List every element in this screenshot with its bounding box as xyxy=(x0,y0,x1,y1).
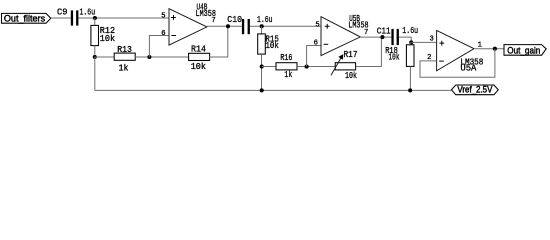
wire C11 to jog xyxy=(399,37,411,42)
wire U5B output to C11 xyxy=(360,36,392,38)
svg-text:5: 5 xyxy=(161,12,165,20)
junction output U5A xyxy=(493,47,497,51)
junction output U4B xyxy=(226,24,230,28)
svg-text:1.6u: 1.6u xyxy=(402,26,418,36)
svg-text:C9: C9 xyxy=(57,7,68,17)
junction node E (inverting input U5B) xyxy=(305,65,309,69)
wire Out_filters to C9 xyxy=(51,17,71,19)
resistor R16 xyxy=(276,63,297,70)
svg-text:10k: 10k xyxy=(345,71,357,81)
svg-text:1k: 1k xyxy=(119,64,129,74)
wire junction down to R15 xyxy=(261,26,263,34)
svg-text:Out_gain: Out_gain xyxy=(507,44,540,55)
wire U5A output to Out_gain xyxy=(474,48,504,50)
svg-text:3: 3 xyxy=(430,36,434,44)
net label Out_filters xyxy=(2,13,51,23)
junction node at C10/R15 xyxy=(260,24,264,28)
wire U4B output to C10 xyxy=(207,25,242,27)
capacitor C10 xyxy=(242,19,250,34)
svg-text:6: 6 xyxy=(161,30,165,38)
svg-text:R16: R16 xyxy=(280,53,292,63)
resistor R14 xyxy=(189,53,210,60)
junction output U5B xyxy=(380,35,384,39)
wire C9 to U4B pin5 xyxy=(78,17,169,19)
resistor R15 xyxy=(258,34,266,54)
trimmer R17 xyxy=(331,55,356,75)
wire R14 to U4B output xyxy=(209,26,228,57)
wire R15 down to Vref rail xyxy=(261,54,263,90)
svg-text:10k: 10k xyxy=(100,34,115,44)
net label Vref_2.5V xyxy=(451,85,498,95)
svg-text:6: 6 xyxy=(314,39,318,47)
svg-text:R17: R17 xyxy=(344,50,358,60)
wire C10 to U5B pin5 xyxy=(250,25,321,27)
wire node B to R13 xyxy=(95,56,114,58)
wire node C up to U4B pin6 xyxy=(149,36,169,58)
capacitor C9 xyxy=(71,10,79,25)
svg-text:5: 5 xyxy=(315,21,319,29)
wire R16 to R17 xyxy=(297,66,335,68)
wire node E up to U5B pin6 xyxy=(307,46,321,67)
wire feedback U5A output to pin2 xyxy=(420,49,495,77)
svg-text:1.6u: 1.6u xyxy=(257,15,273,25)
junction node at C9/R12 xyxy=(93,16,97,20)
op-amp U5A xyxy=(437,30,474,70)
wire node F down to R18 xyxy=(409,42,411,44)
junction node C (inverting input U4B) xyxy=(147,55,151,59)
wire R12 to node B xyxy=(94,46,96,57)
wire R17 to U5B output xyxy=(356,37,382,66)
wire node B down to Vref rail xyxy=(94,57,96,90)
svg-text:C10: C10 xyxy=(227,15,242,25)
junction rail/R15 xyxy=(260,88,264,92)
junction rail/R18 xyxy=(408,88,412,92)
capacitor C11 xyxy=(391,29,399,45)
svg-text:1k: 1k xyxy=(284,70,292,80)
wire node D to R16 xyxy=(262,66,277,68)
resistor R13 xyxy=(114,53,135,60)
svg-text:R13: R13 xyxy=(117,45,132,55)
op-amp U5B xyxy=(321,17,360,56)
junction node F (C11/R18/U5A pin3) xyxy=(409,40,413,44)
svg-text:Out_filters: Out_filters xyxy=(4,13,46,23)
svg-text:1.6u: 1.6u xyxy=(80,7,96,17)
svg-text:10k: 10k xyxy=(191,62,206,72)
svg-text:LM358: LM358 xyxy=(348,21,368,31)
svg-text:C11: C11 xyxy=(377,26,391,36)
resistor R12 xyxy=(91,25,99,45)
svg-text:Vref_2.5V: Vref_2.5V xyxy=(457,85,492,95)
resistor R18 xyxy=(406,45,414,67)
wire junction down to R12 xyxy=(94,18,96,25)
wire node F to U5A pin3 xyxy=(411,41,436,43)
wire Vref rail xyxy=(95,89,452,91)
svg-text:R14: R14 xyxy=(191,45,206,55)
svg-text:U5A: U5A xyxy=(460,64,477,74)
op-amp U4B xyxy=(169,9,207,45)
junction node D (R15/R16) xyxy=(260,64,264,68)
svg-text:10k: 10k xyxy=(265,41,279,51)
wire R18 down to Vref rail xyxy=(409,66,411,90)
junction node B (R12/R13/Vref) xyxy=(93,55,97,59)
svg-text:10k: 10k xyxy=(389,53,400,63)
svg-text:LM358: LM358 xyxy=(196,9,216,19)
wire R13 to R14 xyxy=(135,56,188,58)
net label Out_gain xyxy=(504,44,546,55)
